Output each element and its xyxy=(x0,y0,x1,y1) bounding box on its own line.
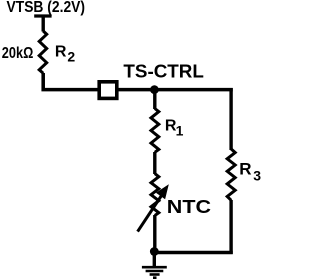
svg-text:2: 2 xyxy=(67,48,75,64)
resistor R3 xyxy=(227,149,235,200)
resistor R2 xyxy=(39,31,47,73)
label R2 xyxy=(55,44,76,65)
svg-text:3: 3 xyxy=(253,167,261,183)
node TS-CTRL junction dot xyxy=(150,85,159,94)
wire R2 to corner to square xyxy=(43,73,98,90)
svg-text:VTSB (2.2V): VTSB (2.2V) xyxy=(7,0,86,16)
wire NTC to bottom node xyxy=(153,215,156,253)
ground bar 2 xyxy=(146,270,164,273)
svg-text:20kΩ: 20kΩ xyxy=(2,45,34,62)
svg-text:NTC: NTC xyxy=(167,197,211,217)
wire square to right corner xyxy=(118,88,233,92)
wire node to R1 xyxy=(153,90,156,110)
svg-text:1: 1 xyxy=(176,122,184,138)
connector pin square xyxy=(99,82,117,99)
thermistor NTC arrow xyxy=(138,184,169,231)
label R3 xyxy=(239,160,261,184)
wire bottom node to R3 branch xyxy=(154,251,232,255)
wire VTSB bar to R2 xyxy=(42,16,45,32)
resistor R1 xyxy=(151,109,159,153)
bottom junction dot xyxy=(150,247,159,256)
svg-text:R: R xyxy=(239,160,251,179)
ground stem xyxy=(153,252,156,267)
ground bar 4 xyxy=(153,276,157,279)
power rail VTSB bar xyxy=(34,14,51,17)
label R1 xyxy=(165,118,184,139)
wire R1 to NTC xyxy=(153,152,156,174)
ground bar 3 xyxy=(150,273,160,276)
thermistor NTC zigzag xyxy=(151,174,159,216)
svg-text:R: R xyxy=(55,44,67,61)
wire R3 to bottom corner xyxy=(229,200,232,254)
wire top corner to R3 xyxy=(229,88,232,150)
svg-text:TS-CTRL: TS-CTRL xyxy=(123,61,203,82)
ground bar 1 xyxy=(142,266,167,269)
